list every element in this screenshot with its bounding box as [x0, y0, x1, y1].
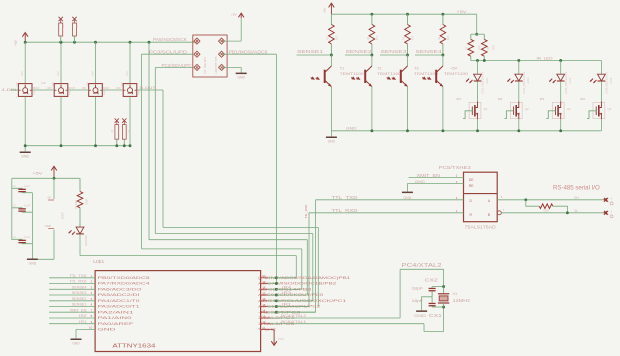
wire IR rail to IRLED1: [477, 61, 479, 75]
transistor T1 (phototransistor): [324, 55, 332, 87]
transistor T3 (phototransistor): [400, 55, 408, 87]
label MCU inner left 6: [98, 305, 140, 309]
pin number U2.4: [456, 196, 458, 200]
label MCU inner left 3: [98, 287, 142, 291]
junction sensor rail R4: [370, 13, 373, 16]
capacitor CX1: [429, 303, 436, 307]
junction IR rail LED2: [517, 59, 520, 62]
svg-text:Q1: Q1: [484, 107, 488, 111]
label R4: [367, 35, 379, 40]
svg-text:LED4_IR25-E1F1-1: LED4_IR25-E1F1-1: [606, 71, 609, 94]
wire U2.A to D+: [497, 199, 604, 201]
svg-text:SENSE1: SENSE1: [72, 303, 87, 307]
junction IR rail LED1: [476, 59, 479, 62]
wire MCU row5 to V312: [276, 300, 312, 302]
svg-text:Q2: Q2: [525, 107, 529, 111]
wire T2 emitter to GND rail: [371, 87, 373, 131]
power +5V down arrow (VCC): [271, 330, 277, 346]
wire MCU left pin 1 (TTL_TXD): [49, 277, 95, 279]
svg-text:Q4: Q4: [607, 107, 611, 111]
svg-text:DIN: DIN: [48, 88, 52, 90]
label R6: [438, 35, 450, 40]
label R9 value: [543, 209, 549, 212]
label R7: [466, 45, 482, 50]
label T4: [450, 67, 457, 71]
svg-text:IR1: IR1: [79, 320, 86, 324]
label T2: [377, 67, 381, 71]
label VCC: [278, 337, 284, 341]
junction MCU right 1: [275, 276, 278, 279]
wire LED1 to GND rail: [24, 97, 26, 146]
ground symbol (MCU): [71, 339, 82, 346]
wire PC5/XTAL1: [270, 307, 443, 332]
connector JP1 outline: [193, 35, 227, 77]
svg-text:TEMT1100: TEMT1100: [414, 72, 438, 76]
junction +5V rail staircase: [148, 41, 151, 44]
label SENSE2 (MCU): [72, 297, 87, 301]
pin number U2.3: [456, 180, 458, 184]
label +5V (LED3 supply): [90, 71, 94, 76]
label TTL_TXD (MCU): [70, 274, 87, 278]
junction R8 bottom: [483, 59, 486, 62]
svg-text:DOUT: DOUT: [103, 88, 110, 90]
svg-text:TTL_RXD: TTL_RXD: [304, 204, 308, 219]
svg-text:PA5/ADC2/DI: PA5/ADC2/DI: [98, 293, 140, 297]
wire GND rail (sensors/FETs): [331, 130, 601, 132]
label +5V (LED4 supply): [125, 71, 129, 76]
pin number 10: [89, 326, 93, 330]
svg-text:10K: 10K: [336, 35, 339, 40]
ground symbol (sensor rail): [326, 131, 337, 144]
label V1: [453, 291, 459, 296]
wire +5V local rail: [12, 177, 80, 179]
svg-text:GND: GND: [415, 179, 425, 184]
LED IRLED2: [507, 74, 522, 83]
svg-text:+5V: +5V: [125, 71, 129, 76]
capacitor C1: [12, 188, 33, 192]
svg-text:TEMT1100: TEMT1100: [377, 72, 401, 76]
wire right cap rail to GND: [31, 193, 33, 259]
wire header row2 right: [222, 53, 277, 55]
svg-text:GND: GND: [98, 328, 117, 332]
pin number 2: [91, 280, 93, 284]
junction sensor rail R6: [441, 13, 444, 16]
svg-text:VCC: VCC: [278, 337, 284, 341]
ground symbol (U2): [402, 192, 413, 200]
ground symbol (crystal): [414, 310, 427, 318]
wire MCU row7 to V315: [276, 311, 315, 313]
wire IR rail corner to LED4: [600, 61, 602, 75]
wire TTL_TXD: [276, 200, 463, 312]
label PC4/XTAL2 (mcu): [281, 313, 306, 318]
wire T3 emitter to GND rail: [407, 87, 409, 131]
label JP1 inner text col2: [214, 56, 218, 73]
svg-text:SENSE3: SENSE3: [381, 49, 408, 54]
svg-text:PC5/XTAL1: PC5/XTAL1: [281, 319, 306, 324]
photo arrows T1: [311, 76, 320, 80]
pin stub MCU VCC: [261, 329, 275, 331]
junction GND rail: [129, 144, 132, 147]
resistor R7: [468, 34, 474, 60]
pin stub MCU right 3: [261, 288, 277, 290]
label U2 DE: [469, 178, 474, 182]
junction +5V rail at LED4: [129, 41, 132, 44]
svg-text:IR4: IR4: [580, 97, 585, 101]
label IR1 (row6): [282, 303, 291, 307]
svg-text:PC4/XTAL2: PC4/XTAL2: [281, 313, 306, 318]
label XMIT_EN: [417, 173, 441, 178]
label Q3: [567, 107, 571, 111]
label MCU inner left 8: [98, 316, 132, 320]
svg-text:T2: T2: [377, 67, 381, 71]
wire LED1.DOUT - LED2.DIN: [32, 88, 55, 90]
wire Q4 source to rail end: [600, 119, 602, 131]
wire crystal bottom node: [432, 306, 444, 308]
label +5V (regulator area): [32, 172, 43, 176]
svg-text:GND: GND: [70, 90, 72, 95]
pin IC1P GND: [45, 224, 54, 229]
svg-text:TTL_TXD: TTL_TXD: [332, 195, 358, 200]
label header pin1 net: [153, 37, 187, 42]
junction MCU right 2: [275, 282, 278, 285]
pin number 9: [91, 320, 93, 324]
svg-text:T1: T1: [340, 67, 344, 71]
power +5V arrow (LED chain): [14, 33, 28, 47]
wire MCU row6 to V309: [276, 306, 309, 308]
wire Q1 gate: [463, 111, 472, 119]
label MCU inner right 3: [258, 287, 311, 291]
wire IRLED4 cathode: [600, 81, 602, 101]
label SENSE1: [297, 49, 324, 54]
pin number MCU right 3: [262, 286, 266, 290]
label header row3 net: [162, 63, 192, 68]
wire MCU left pin 3 (SENSE4): [49, 288, 95, 290]
svg-text:+5V: +5V: [323, 8, 327, 13]
wire IRLED2 cathode: [518, 81, 520, 101]
ground symbol (caps): [27, 259, 38, 266]
label GND (U2): [415, 179, 425, 184]
pin stub MCU right 9: [261, 323, 271, 325]
wire header row2 left: [142, 53, 193, 55]
svg-text:CX2: CX2: [425, 278, 439, 283]
wire GND rail (LED chain): [25, 145, 130, 147]
pin U2.B bubble: [497, 211, 501, 215]
label CX1 value: [412, 298, 424, 303]
label MCU inner right 1: [258, 276, 350, 280]
svg-text:PA5/ADC5/SCK: PA5/ADC5/SCK: [153, 37, 187, 42]
label CX2: [425, 278, 439, 283]
label U2 D: [470, 199, 473, 203]
label LED2 side texts: [52, 81, 71, 95]
pin number MCU right 7: [262, 309, 266, 313]
photo arrows T4: [422, 76, 431, 80]
svg-text:FIT THE 3PS: FIT THE 3PS: [203, 57, 207, 74]
junction MCU right 6: [275, 305, 278, 308]
pin JP1 right 2: [218, 51, 224, 57]
label TTL_TXD: [332, 195, 358, 200]
pin number 7: [91, 308, 93, 312]
label U2 B: [488, 213, 491, 217]
svg-text:VDD: VDD: [17, 81, 19, 86]
label U2 RE: [469, 184, 474, 188]
wire LED5 cathode down: [79, 234, 81, 256]
svg-text:+5V: +5V: [457, 10, 468, 14]
junction R1 on rail: [59, 41, 62, 44]
label MCU inner left 10: [98, 328, 117, 332]
svg-text:10K: 10K: [376, 35, 379, 40]
svg-text:75ALS176AD: 75ALS176AD: [465, 224, 496, 229]
junction GND rail sensor: [370, 129, 373, 132]
pin number MCU right 10: [262, 326, 265, 330]
svg-text:LED3_IR25-E1F1-1: LED3_IR25-E1F1-1: [565, 71, 568, 94]
label R3: [327, 35, 339, 40]
photo arrows T2: [351, 76, 360, 80]
svg-text:+5V: +5V: [14, 39, 18, 46]
wire IRLED3 cathode: [560, 81, 562, 101]
label MCU inner right 5: [258, 299, 346, 303]
transistor T2 (phototransistor): [364, 55, 372, 87]
capacitor C4 (bypass): [115, 118, 119, 147]
junction GND rail: [60, 144, 63, 147]
label header row2 net: [149, 50, 187, 55]
junction R7/R8 top: [475, 33, 478, 36]
svg-text:PB0/TXD0/ADC5: PB0/TXD0/ADC5: [98, 276, 150, 280]
resistor R8: [482, 34, 488, 60]
label Q1: [484, 107, 488, 111]
svg-text:PA6/ADC3/DO: PA6/ADC3/DO: [98, 287, 142, 291]
label IR1 gate net: [457, 97, 462, 101]
junction GND rail sensor: [406, 129, 409, 132]
pin JP1 right 1: [218, 38, 224, 44]
svg-text:IR_LED: IR_LED: [537, 56, 553, 61]
pin JP1 left 1: [194, 38, 200, 44]
svg-text:SENSE2: SENSE2: [72, 297, 87, 301]
junction SENSE4 node: [441, 54, 444, 57]
label IRLED4 value: [606, 71, 613, 94]
junction MCU right 3: [275, 288, 278, 291]
label C4 C5: [112, 129, 131, 133]
wire T4 emitter to GND rail: [442, 87, 444, 131]
junction GND rail FET: [476, 129, 479, 132]
svg-text:PA0/AREF: PA0/AREF: [98, 322, 136, 326]
svg-text:PC4/XTAL2: PC4/XTAL2: [402, 263, 442, 269]
wire net hdr-row2R to MCU row2: [275, 54, 277, 283]
capacitor C2: [12, 208, 33, 212]
pin number U2.7: [503, 208, 505, 212]
label MCU inner right 9: [258, 322, 294, 326]
label 4-DIN: [2, 87, 17, 92]
svg-text:PA4/ADC1/T0: PA4/ADC1/T0: [98, 299, 140, 303]
pin JP1 right 3: [219, 64, 225, 70]
wire MCU left pin 2 (TTL_RXD): [49, 283, 95, 285]
wire TTL_RXD: [276, 213, 463, 307]
wire LED4.DOUT east: [137, 89, 163, 91]
svg-text:PA7/RXD0/ADC4: PA7/RXD0/ADC4: [98, 282, 150, 286]
label Q4: [607, 107, 611, 111]
label T1: [340, 67, 344, 71]
label U2 R: [470, 213, 473, 217]
svg-text:IC1P: IC1P: [61, 212, 65, 219]
wire MCU left pin 6 (SENSE1): [49, 306, 95, 308]
label D-: [575, 209, 580, 213]
wire LED2 to GND rail: [60, 97, 62, 146]
pin number 3: [91, 285, 93, 289]
pin number MCU right 9: [262, 320, 266, 324]
svg-text:12MHz: 12MHz: [453, 298, 471, 303]
label TTL_RXD: [332, 208, 358, 213]
label IRLED2 value: [523, 71, 530, 94]
label IR4 (row3): [282, 286, 291, 290]
wire MCU left pin 5 (SENSE2): [49, 300, 95, 302]
label R5: [403, 35, 415, 40]
wire R7/R8 top split: [471, 33, 485, 35]
wire +5V sensor rail: [331, 13, 476, 15]
ground symbol (header): [236, 73, 247, 80]
label IRLED3 value: [565, 71, 572, 94]
svg-text:GND: GND: [45, 224, 51, 228]
svg-text:RE: RE: [469, 184, 474, 188]
pin stub MCU right 8: [261, 317, 271, 319]
wire IR rail to IRLED2: [518, 61, 520, 75]
resistor R6 (sense pull-up): [440, 14, 446, 55]
junction +5V local: [53, 177, 56, 180]
resistor R1 (top pull): [59, 17, 66, 42]
svg-text:DSN: DSN: [41, 82, 46, 85]
wire SENSE1: [297, 54, 332, 56]
pin number MCU right 2: [262, 280, 266, 284]
wire +5V rail top-left: [25, 41, 197, 43]
junction GND rail FET: [559, 129, 562, 132]
wire PC4/XTAL2: [270, 269, 443, 318]
wire MCU row1 to V296: [276, 277, 296, 279]
svg-text:PC2/SDA/UPC: PC2/SDA/UPC: [162, 63, 192, 68]
wire Q2 source: [518, 119, 520, 131]
pin number 6: [91, 303, 93, 307]
label MCU inner left 2: [98, 282, 150, 286]
resistor RLED1: [77, 178, 83, 227]
label MCU inner left 7: [98, 310, 134, 314]
LED LED5 (status): [69, 227, 84, 235]
wire Q3 gate: [546, 111, 555, 119]
crystal V1 12MHz: [438, 287, 449, 307]
svg-text:SENSE3: SENSE3: [72, 291, 87, 295]
junction crystal top: [442, 285, 445, 288]
svg-text:39R: 39R: [493, 45, 496, 50]
svg-text:XMIT_EN: XMIT_EN: [417, 173, 441, 178]
svg-text:SENSE1: SENSE1: [297, 49, 324, 54]
wire net +5V-branch to MCU row4: [149, 42, 307, 295]
label Q2: [525, 107, 529, 111]
svg-text:+5V: +5V: [56, 71, 60, 76]
wire U2.B to D-: [501, 212, 604, 214]
wire header row3 left: [155, 67, 193, 69]
svg-text:PA1/AIN0: PA1/AIN0: [98, 316, 132, 320]
resistor R5 (sense pull-up): [405, 14, 411, 55]
svg-text:TTL_RXD: TTL_RXD: [332, 208, 358, 213]
label MCU inner left 1: [98, 276, 150, 280]
pin JP1 left 3: [194, 64, 200, 70]
label C1: [13, 185, 31, 188]
svg-text:IR3: IR3: [282, 291, 291, 295]
IC U$1 ATTINY1634 outline: [95, 271, 261, 352]
svg-text:10K: 10K: [412, 35, 415, 40]
label T4 value: [444, 72, 468, 76]
svg-text:TEMT1100: TEMT1100: [340, 72, 364, 76]
svg-text:GND: GND: [72, 342, 80, 346]
svg-text:VDD: VDD: [52, 81, 54, 86]
label IC1P: [61, 212, 65, 219]
svg-text:PA2/AIN1: PA2/AIN1: [98, 310, 134, 314]
junction +5V rail / LED1 feed: [24, 41, 27, 44]
wire net DOUT to MCU row6: [163, 90, 318, 307]
label SENSE2: [346, 49, 373, 54]
wire IC1P 5V feed: [53, 178, 55, 199]
junction B line: [566, 211, 569, 214]
label PC4/XTAL2 (crystal): [402, 263, 442, 269]
resistor R4 (sense pull-up): [369, 14, 375, 55]
wire IR rail to IRLED3: [560, 61, 562, 75]
svg-text:DOUT: DOUT: [33, 88, 40, 90]
wire Q2 gate: [504, 111, 513, 119]
label MCU inner right 10: [258, 328, 277, 332]
svg-text:+5V: +5V: [32, 172, 43, 176]
pin number 1: [91, 274, 93, 278]
capacitor C3: [12, 239, 33, 243]
pin stub MCU right 6: [261, 306, 277, 308]
svg-text:IR2: IR2: [498, 97, 503, 101]
pin number 5: [91, 297, 93, 301]
label R8: [487, 45, 496, 50]
wire Q3 source: [560, 119, 562, 131]
label +5V (LED2 supply): [56, 71, 60, 76]
svg-text:GND: GND: [34, 90, 36, 95]
label CX2 value: [412, 285, 424, 290]
wire net hdr-row3L to MCU row5: [155, 68, 312, 301]
junction SENSE2 node: [370, 54, 373, 57]
transistor Q4 (n-MOSFET): [593, 101, 605, 119]
junction MCU right 4: [275, 294, 278, 297]
svg-text:LED2: LED2: [527, 77, 530, 84]
svg-text:5V: 5V: [48, 195, 51, 199]
svg-text:DE: DE: [469, 178, 474, 182]
svg-text:+5V: +5V: [450, 67, 457, 71]
label U2 value: [465, 224, 496, 229]
label T1 value: [340, 72, 364, 76]
pin stub MCU right 4: [261, 294, 277, 296]
label T2 value: [377, 72, 401, 76]
label IR2 (MCU): [79, 314, 86, 318]
svg-text:PA3/ADC0/T1: PA3/ADC0/T1: [98, 305, 140, 309]
junction MCU right 7: [275, 311, 278, 314]
capacitor CX2: [429, 287, 436, 303]
resistor R3 (sense pull-up): [329, 14, 335, 55]
pin number 8: [91, 314, 93, 318]
svg-text:VDD: VDD: [87, 81, 89, 86]
wire T1 emitter to GND rail: [330, 87, 332, 131]
pin number U2.6: [501, 195, 503, 199]
label IR_LED: [537, 56, 553, 61]
LED IRLED3: [549, 74, 564, 83]
wire U2 GND pin: [407, 184, 463, 192]
wire crystal top node: [432, 286, 444, 288]
pin number U2.2: [456, 174, 458, 178]
wire caps mid to GND: [422, 297, 433, 310]
svg-text:Q3: Q3: [567, 107, 571, 111]
label T3: [414, 67, 418, 71]
svg-text:GND: GND: [346, 126, 357, 131]
svg-text:10: 10: [89, 326, 93, 330]
svg-text:TTL_RXD: TTL_RXD: [70, 280, 87, 284]
